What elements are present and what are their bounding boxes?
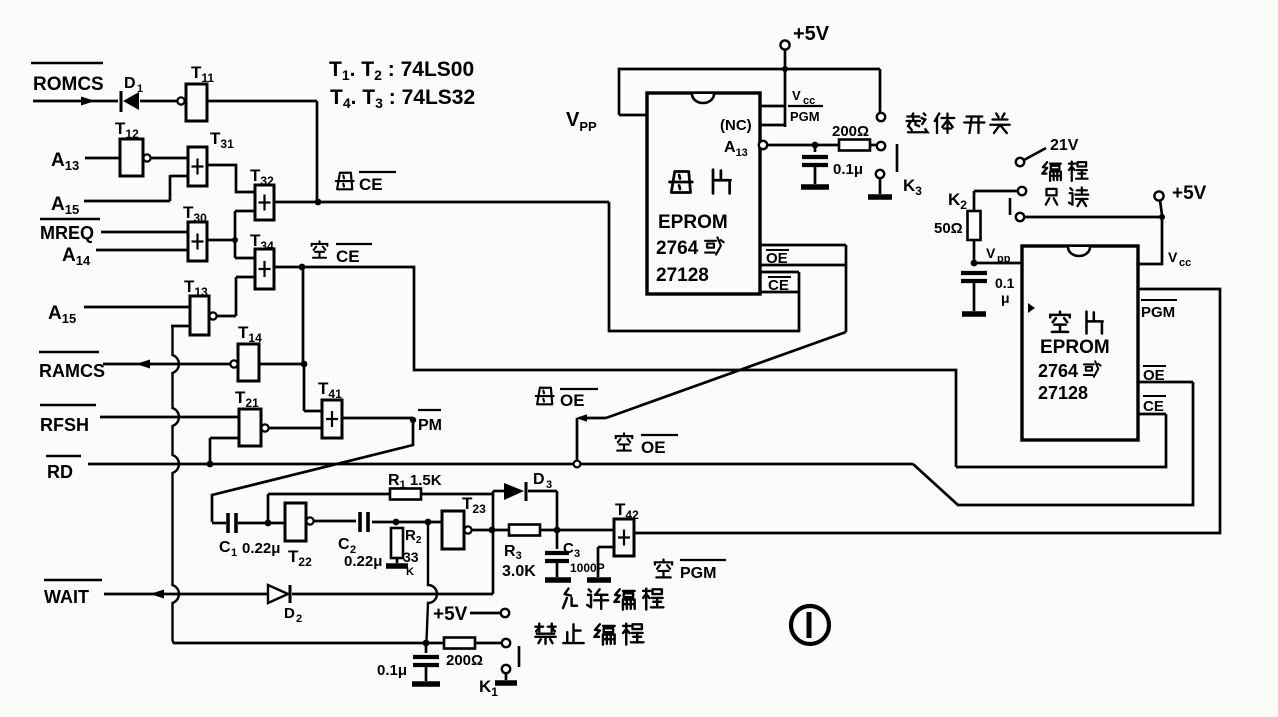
pin CE master tab	[760, 271, 799, 274]
svg-text:C: C	[563, 540, 574, 557]
svg-text:T1. T2 : 74LS00: T1. T2 : 74LS00	[329, 58, 474, 83]
gate T22	[268, 522, 285, 525]
junction T23 input to K1 net	[425, 519, 432, 526]
svg-text:RAMCS: RAMCS	[39, 361, 105, 381]
gate T14	[238, 344, 259, 381]
svg-text:PGM: PGM	[790, 109, 820, 124]
T22 output bubble	[306, 517, 313, 524]
wire T14 input from empty-CE vertical	[259, 363, 304, 366]
+5V terminal right	[1154, 191, 1163, 200]
resistor 200ohm top	[839, 140, 870, 151]
wire master CE to mother-CE loop	[609, 202, 799, 331]
wire 50ohm to VPP slave	[973, 240, 976, 263]
svg-text:MREQ: MREQ	[40, 223, 94, 243]
svg-text:3.0K: 3.0K	[502, 563, 536, 580]
junction T14/empty-CE vertical	[301, 361, 308, 368]
label empty-chip text	[1050, 312, 1069, 332]
capacitor C1	[226, 513, 230, 533]
gate T32 (OR)	[255, 185, 274, 220]
wire junction up to R1 right / D3	[492, 491, 495, 530]
net label ROMCS	[31, 62, 103, 65]
wire master OE down to diagonal	[845, 245, 848, 332]
IC U1 master EPROM 2764/27128 body	[647, 93, 760, 294]
net label WAIT	[44, 579, 102, 582]
svg-text:CE: CE	[359, 175, 383, 194]
gate T11	[186, 84, 207, 121]
svg-text:2764: 2764	[1038, 361, 1078, 381]
wire mother-OE branch	[576, 418, 579, 460]
svg-text:EPROM: EPROM	[658, 212, 728, 233]
svg-text:+5V: +5V	[1172, 183, 1207, 204]
resistor R3 3.0K	[509, 525, 540, 536]
label read-only mode	[1046, 189, 1058, 205]
gate T13	[190, 296, 209, 335]
svg-text:V: V	[1168, 249, 1178, 265]
svg-text:(NC): (NC)	[720, 117, 752, 134]
wire T31 output to T32	[207, 165, 255, 192]
svg-text:200Ω: 200Ω	[832, 123, 869, 140]
wire RAMCS line	[103, 363, 230, 366]
svg-text:D: D	[533, 471, 545, 488]
wire slave CE to empty-CE line	[956, 414, 1166, 467]
svg-text:pp: pp	[997, 253, 1011, 265]
figure number 1 in circle	[791, 606, 829, 644]
pin OE master tab	[760, 244, 846, 247]
gate T31 (OR)	[188, 147, 207, 186]
svg-text:D: D	[124, 75, 136, 92]
switch K1	[502, 639, 510, 647]
pin Vcc/PGM master	[760, 105, 785, 108]
svg-text:27128: 27128	[656, 265, 709, 286]
svg-text:+5V: +5V	[793, 23, 830, 45]
switch K2 pole	[1018, 187, 1026, 195]
node PM	[410, 417, 416, 423]
arrow on ROMCS wire	[81, 97, 95, 106]
svg-text:K: K	[406, 566, 414, 578]
label empty-CE	[312, 241, 328, 257]
svg-text:50Ω: 50Ω	[934, 220, 963, 237]
switch K3	[896, 144, 899, 172]
label empty-PGM	[655, 559, 672, 577]
capacitor 0.1u bottom	[425, 643, 428, 653]
capacitor 0.1u at VPP slave	[961, 271, 987, 275]
resistor R1 1.5K	[268, 493, 390, 496]
+5V terminal top	[780, 40, 789, 49]
svg-text:V: V	[792, 88, 801, 103]
svg-text:WAIT: WAIT	[44, 587, 89, 607]
wire T22 to C2	[314, 520, 356, 523]
svg-text:D: D	[284, 605, 295, 622]
net label RD	[46, 455, 81, 458]
net label RAMCS	[39, 351, 99, 354]
svg-text:0.1: 0.1	[995, 275, 1015, 291]
svg-text:R1 1.5K: R1 1.5K	[388, 472, 442, 491]
wire T34 output / empty-CE start	[274, 266, 302, 269]
svg-text:3: 3	[546, 479, 552, 491]
wire A14 to T30	[96, 249, 188, 252]
svg-text:21V: 21V	[1050, 137, 1079, 154]
wire +5V to Vcc pin slave	[1138, 217, 1162, 264]
wire D3 to C3 junction	[528, 490, 557, 493]
wire A15 to T13	[84, 306, 190, 309]
IC U2 slave EPROM 2764/27128 body	[1022, 246, 1138, 440]
ground under C3	[545, 577, 571, 583]
net label RFSH	[40, 404, 96, 407]
label allow-programming	[563, 589, 577, 609]
wire left rail (K1 net) with hops	[173, 326, 179, 641]
svg-text:PGM: PGM	[680, 565, 716, 582]
pin OE slave	[1143, 365, 1166, 367]
ground under VPP cap	[962, 311, 986, 317]
wire T41 output to PM node	[342, 417, 413, 420]
wire T30 output branch to T32 and T34	[207, 239, 235, 242]
inverter T11 input bubble	[177, 97, 184, 104]
svg-text:μ: μ	[1001, 290, 1010, 306]
wire D2 to oscillator output	[292, 593, 493, 596]
arrow WAIT output	[150, 590, 164, 599]
pin VPP master	[619, 114, 647, 117]
svg-text:2: 2	[296, 613, 302, 625]
junction node mother-CE	[315, 199, 322, 206]
svg-text:C: C	[219, 539, 231, 556]
wire junction up to R1	[267, 494, 270, 523]
wire T13 output to T34	[235, 277, 238, 316]
wire A15 to T31	[84, 200, 170, 203]
wire A13 to T12	[85, 157, 120, 160]
junction K1 node	[423, 640, 430, 647]
wire MREQ to T30	[101, 231, 188, 234]
capacitor C3 1000P	[556, 530, 559, 549]
ground under 0.1u cap	[412, 681, 440, 687]
wire RFSH to T21	[100, 416, 239, 419]
junction on RD line	[207, 461, 214, 468]
switch K2 +5V contact	[1016, 213, 1024, 221]
T23 output bubble	[464, 526, 471, 533]
wire +5V down to Vcc/PGM pins	[784, 69, 787, 127]
resistor 50ohm	[973, 191, 976, 211]
svg-text:T4. T3 : 74LS32: T4. T3 : 74LS32	[330, 86, 475, 111]
label mother-OE	[536, 388, 554, 405]
svg-text:OE: OE	[766, 250, 788, 267]
ground under R2	[396, 558, 399, 563]
label forbid-programming	[535, 624, 555, 644]
wire VPP loop to +5V rail	[619, 69, 880, 115]
svg-text:1: 1	[137, 83, 143, 95]
svg-text:+5V: +5V	[433, 604, 468, 625]
label mother-CE	[336, 173, 354, 190]
switch K2 21V contact	[1016, 158, 1024, 166]
diode D1	[120, 91, 123, 112]
svg-text:OE: OE	[560, 391, 585, 410]
resistor R2 33K	[391, 528, 403, 558]
svg-text:CE: CE	[336, 247, 360, 266]
capacitor 0.1u at A13	[814, 145, 817, 152]
diode D3	[493, 490, 504, 493]
svg-text:0.22μ: 0.22μ	[344, 553, 382, 570]
wire T21 to T41	[269, 427, 322, 430]
gate T41 (OR)	[322, 400, 342, 438]
wire T13 second input to left rail	[171, 325, 190, 328]
svg-text:RD: RD	[47, 462, 73, 482]
wire T11 output to mother-CE junction	[207, 100, 317, 103]
svg-text:C: C	[338, 536, 350, 553]
svg-text:0.22μ: 0.22μ	[242, 540, 280, 557]
ground under A13 cap	[801, 184, 829, 190]
svg-text:33: 33	[403, 549, 419, 565]
T21 output bubble	[261, 424, 268, 431]
T14 output bubble	[230, 360, 237, 367]
wire PM diagonal to C1	[212, 420, 413, 522]
gate T12	[120, 139, 143, 176]
junction C3	[554, 527, 561, 534]
wire WAIT line	[104, 593, 268, 596]
svg-text:1000P: 1000P	[570, 561, 605, 575]
T12 output bubble	[143, 154, 150, 161]
wire ROMCS	[33, 100, 118, 103]
diode D2	[268, 585, 288, 603]
wire T12 to T31	[151, 157, 188, 160]
junction node empty-CE	[299, 264, 306, 271]
svg-text:27128: 27128	[1038, 383, 1088, 403]
pin A13 wire to 200ohm	[759, 141, 767, 149]
gate T21	[239, 409, 261, 446]
pin CE slave	[1143, 395, 1166, 397]
svg-text:ROMCS: ROMCS	[33, 74, 104, 95]
svg-text:1: 1	[231, 547, 237, 559]
wire K2 pole to 50ohm	[974, 190, 1018, 193]
junction circle mother-OE on RD line	[574, 461, 581, 468]
label program mode	[1042, 162, 1061, 181]
label empty-OE	[616, 433, 633, 450]
svg-text:200Ω: 200Ω	[446, 652, 483, 669]
wire RD long line to slave OE	[88, 463, 913, 466]
wire T23 output junction	[472, 529, 509, 532]
T13 output bubble	[209, 312, 216, 319]
wire T32 output / mother-CE line	[274, 201, 609, 204]
wire empty-CE long line	[302, 267, 956, 467]
ground stub for T42 second input	[598, 546, 614, 549]
svg-text:V: V	[986, 245, 996, 261]
gate T30 (OR)	[188, 222, 207, 261]
gate T42 (OR)	[614, 519, 634, 556]
svg-text:RFSH: RFSH	[40, 415, 89, 435]
wire +5V rail to K3	[879, 69, 882, 112]
capacitor C2	[358, 512, 362, 532]
junction R2	[393, 519, 400, 526]
svg-text:PGM: PGM	[1141, 304, 1175, 321]
svg-text:EPROM: EPROM	[1040, 337, 1110, 358]
resistor 200ohm bottom	[444, 638, 475, 649]
wire vertical empty-CE branch to T41	[302, 267, 305, 364]
wire T21 input from RD line	[209, 438, 212, 464]
label master-chip text	[670, 172, 693, 193]
net label MREQ	[40, 218, 100, 221]
wire diagonal mother-OE to master OE	[606, 332, 846, 418]
wire rail bottom to K1 node	[173, 641, 427, 643]
svg-text:cc: cc	[1179, 257, 1191, 269]
svg-text:CE: CE	[768, 277, 789, 294]
svg-text:2764: 2764	[656, 238, 699, 259]
wire D1 to T11	[140, 100, 177, 103]
svg-text:0.1μ: 0.1μ	[377, 662, 407, 679]
scan mark inside slave chip	[1028, 303, 1035, 313]
wire K2 +5V contact to Vcc	[1024, 216, 1162, 219]
svg-text:3: 3	[574, 548, 580, 560]
gate T23	[442, 511, 464, 549]
svg-text:OE: OE	[641, 438, 666, 457]
junction C1/T22/R1	[265, 520, 272, 527]
switch K2 lever	[1009, 198, 1012, 215]
arrow RAMCS output	[136, 360, 150, 369]
label select-chip switch	[907, 114, 928, 133]
svg-text:0.1μ: 0.1μ	[833, 161, 863, 178]
wire T23 input down to K1 node with hop	[427, 524, 438, 641]
pin PGM slave	[1141, 299, 1177, 301]
gate T34 (OR)	[255, 249, 274, 289]
wire T42 output / empty-PGM to slave PGM pin	[634, 289, 1220, 533]
svg-text:PM: PM	[418, 417, 442, 434]
arrowhead mother-OE	[576, 414, 587, 422]
svg-text:CE: CE	[1143, 398, 1164, 415]
